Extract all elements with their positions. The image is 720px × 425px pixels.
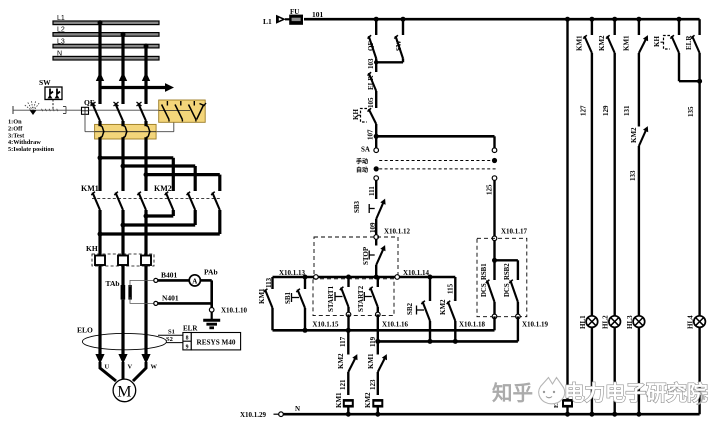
busbar L2	[53, 33, 159, 37]
QF thermal trip box (yellow)	[95, 124, 157, 139]
svg-text:SB3: SB3	[353, 200, 361, 213]
local box STOP dashed	[314, 237, 398, 277]
svg-text:X10.1.14: X10.1.14	[403, 269, 430, 277]
svg-text:M: M	[117, 384, 131, 401]
svg-text:KM1: KM1	[367, 353, 375, 369]
svg-text:U: U	[105, 364, 110, 371]
busbar L1	[53, 21, 159, 25]
wire phase W mid	[144, 121, 147, 126]
local box START dashed	[313, 279, 394, 316]
svg-text:X10.1.12: X10.1.12	[384, 228, 411, 236]
svg-text:KM1: KM1	[335, 392, 343, 408]
svg-text:SB2: SB2	[406, 302, 414, 315]
QF pole phase V	[116, 104, 124, 121]
svg-text:131: 131	[623, 105, 631, 116]
svg-text:SW: SW	[39, 78, 51, 87]
wire KM1 outputs	[98, 210, 101, 255]
svg-text:B401: B401	[161, 271, 178, 280]
thermal relay KH heaters	[92, 254, 154, 266]
svg-text:L2: L2	[57, 27, 65, 34]
ground symbol	[211, 312, 213, 321]
svg-text:129: 129	[602, 105, 610, 116]
svg-text:101: 101	[312, 10, 324, 19]
KM2 main contacts	[166, 193, 174, 211]
relay alarm contact ELR	[698, 19, 700, 35]
node SW branch	[401, 17, 406, 22]
svg-text:121: 121	[339, 379, 347, 390]
QF mechanism box	[82, 107, 89, 114]
svg-text:KM1: KM1	[81, 184, 99, 193]
svg-text:L1: L1	[57, 15, 65, 22]
motor M	[113, 379, 136, 402]
draw-out arrow phase V	[119, 72, 127, 81]
node QF branch	[374, 17, 379, 22]
contact KM2	[612, 17, 617, 22]
CT secondary wires	[130, 280, 155, 303]
svg-text:133: 133	[629, 170, 637, 181]
wire N401	[154, 301, 158, 305]
feeder arrow to right	[100, 86, 166, 89]
svg-text:KM2: KM2	[364, 392, 372, 408]
motor leads	[100, 362, 146, 381]
svg-text:X10.1.17: X10.1.17	[501, 228, 528, 236]
svg-text:9: 9	[186, 344, 189, 350]
svg-text:X10.1.29: X10.1.29	[240, 411, 267, 419]
wire KM2 output crossover 3	[218, 210, 221, 234]
svg-text:127: 127	[579, 105, 587, 116]
contact KM1	[589, 17, 594, 22]
svg-text:电力电子研究院: 电力电子研究院	[564, 381, 708, 405]
svg-text:KH: KH	[86, 244, 98, 253]
svg-text:S1: S1	[168, 329, 175, 336]
svg-text:ELO: ELO	[77, 326, 93, 335]
node jumper W to KM2	[144, 172, 149, 177]
svg-text:105: 105	[367, 97, 375, 108]
svg-text:SB1: SB1	[284, 291, 292, 304]
thermal alarm contact KH	[677, 17, 682, 22]
draw-out arrow phase W	[142, 72, 150, 81]
svg-text:PAb: PAb	[204, 268, 218, 277]
node L1 tap	[98, 20, 103, 25]
busbar N	[53, 56, 159, 60]
QF pole phase W	[139, 104, 147, 121]
svg-text:KH: KH	[352, 109, 360, 120]
wire phase V vertical top	[121, 34, 124, 104]
position fan indicator	[24, 105, 32, 111]
wire B401 ammeter circuit	[154, 278, 158, 282]
wire KM2 output crossover 2	[194, 210, 197, 225]
wire EL branch	[565, 17, 570, 22]
watermark zhihu	[492, 378, 708, 406]
terminal X10.1.15	[346, 312, 351, 317]
svg-text:X10.1.18: X10.1.18	[459, 321, 486, 329]
svg-text:KM2: KM2	[154, 184, 172, 193]
node L2 tap	[121, 32, 126, 37]
svg-text:X10.1.15: X10.1.15	[312, 321, 339, 329]
svg-text:START1: START1	[327, 285, 335, 312]
svg-text:103: 103	[367, 58, 375, 69]
svg-text:A: A	[192, 277, 197, 285]
terminal X10.1.18	[492, 314, 497, 319]
svg-text:KM1: KM1	[575, 35, 583, 51]
svg-text:自动: 自动	[356, 166, 368, 174]
svg-text:125: 125	[486, 184, 494, 195]
node jumper V to KM2	[121, 164, 126, 169]
KM1 main contacts	[93, 193, 101, 211]
svg-text:KM2: KM2	[439, 299, 447, 315]
svg-text:5:Isolate position: 5:Isolate position	[8, 146, 55, 153]
svg-text:V: V	[128, 364, 133, 371]
svg-text:111: 111	[368, 186, 376, 196]
svg-text:KM2: KM2	[337, 353, 345, 369]
busbar L3	[53, 44, 159, 48]
wire phase U mid	[98, 121, 101, 126]
svg-text:L3: L3	[57, 38, 65, 45]
wire KM2 output crossover 1	[172, 210, 175, 216]
svg-text:KM1: KM1	[622, 35, 630, 51]
draw-out arrow phase U	[96, 72, 104, 81]
bus node 119 lower	[377, 314, 379, 341]
svg-text:119: 119	[369, 336, 377, 347]
svg-text:SA: SA	[361, 146, 370, 154]
svg-text:135: 135	[687, 106, 695, 117]
svg-text:KM2: KM2	[598, 35, 606, 51]
svg-text:117: 117	[339, 336, 347, 347]
svg-text:123: 123	[369, 379, 377, 390]
svg-text:RESYS M40: RESYS M40	[197, 338, 236, 346]
svg-text:W: W	[151, 364, 158, 371]
control bus 277	[273, 276, 456, 279]
svg-text:知乎: 知乎	[492, 381, 533, 405]
svg-text:X10.1.10: X10.1.10	[221, 307, 248, 315]
bus node 117 upper	[273, 329, 495, 332]
motor feeder arrows U V W	[95, 354, 104, 364]
svg-text:8: 8	[186, 336, 189, 342]
svg-text:DCS_RSB1: DCS_RSB1	[481, 263, 488, 297]
QF auxiliary contact box (yellow)	[159, 100, 206, 122]
svg-text:107: 107	[367, 129, 375, 140]
terminal X10.1.16	[376, 312, 381, 317]
svg-text:L1: L1	[263, 17, 272, 26]
SW linkage dashed	[52, 100, 54, 111]
remote box DCS dashed	[477, 238, 527, 316]
wire phase U vertical top	[98, 23, 101, 104]
svg-text:N: N	[57, 50, 62, 57]
svg-text:N401: N401	[162, 294, 179, 303]
svg-text:手动: 手动	[356, 158, 368, 166]
wire phase V mid	[121, 121, 124, 126]
svg-text:ELR: ELR	[183, 324, 198, 332]
mechanical linkage line	[13, 109, 82, 111]
QF pole phase U	[93, 104, 101, 121]
terminal X10.1.19	[516, 314, 521, 319]
svg-text:X10.1.13: X10.1.13	[279, 269, 306, 277]
terminal X10.1.10	[209, 308, 214, 313]
KM linkage dashed	[92, 198, 221, 200]
svg-text:X10.1.16: X10.1.16	[382, 321, 409, 329]
svg-text:DCS_RSB2: DCS_RSB2	[504, 263, 511, 297]
contact KM1 branch 131	[636, 17, 641, 22]
svg-text:115: 115	[447, 283, 455, 294]
svg-text:X10.1.19: X10.1.19	[522, 321, 549, 329]
svg-text:N: N	[295, 405, 300, 413]
svg-text:KH: KH	[653, 36, 661, 47]
svg-text:TAb: TAb	[106, 279, 120, 288]
QF trip linkage	[84, 114, 86, 131]
node jumper U to KM2	[98, 155, 103, 160]
svg-text:KM2: KM2	[630, 127, 638, 143]
node 107 branch	[374, 134, 379, 139]
node L3 tap	[144, 44, 149, 49]
wire phase W vertical top	[144, 46, 147, 104]
position tick marks	[42, 109, 43, 111]
wire phases below KH	[98, 266, 101, 360]
